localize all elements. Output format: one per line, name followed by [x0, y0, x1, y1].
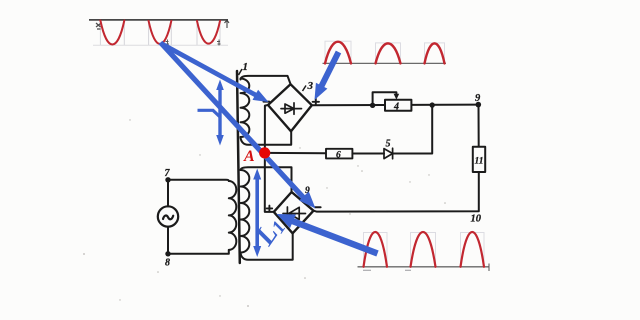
diode inside V2 (points left): [283, 207, 306, 220]
svg-text:9: 9: [475, 93, 481, 104]
wire: W2a bottom to bridge V1 bottom vertex: [241, 131, 292, 144]
wire: node A rail to resistor R6: [265, 152, 326, 154]
junction dot at rheostat left: [370, 103, 375, 108]
plus sign at V2 output: [267, 206, 273, 212]
wire: VD5 up to top rail junction: [393, 105, 433, 153]
G1 red curve: three negative half-sine valleys: [100, 21, 220, 45]
G3 tick marks: [363, 269, 411, 271]
blue tick on arrow B5: [198, 110, 220, 116]
blue arrow B2: waveform G1 through node A to V2 minus terminal: [161, 43, 316, 209]
G3 red curve: three positive half-sine humps: [364, 232, 485, 267]
svg-text:10: 10: [471, 214, 482, 225]
svg-text:11: 11: [475, 157, 484, 167]
blue arrow B3: waveform G2 to V1 plus terminal: [315, 52, 339, 100]
rheostat R4 wiper arrowhead: [394, 94, 400, 100]
paper speckles: [83, 119, 446, 307]
wire: R11 down to node 10 corner and left to V2 minus vertex: [314, 172, 479, 212]
plus sign at V1 output: [313, 99, 319, 105]
minus sign at V2 output: [315, 206, 321, 208]
G2 baseline: [323, 62, 447, 64]
G2 grid boxes: [325, 41, 445, 63]
diode inside V1: [281, 103, 302, 114]
minus sign at V1 output: [264, 101, 270, 103]
bridge rectifier V1 diamond: [268, 84, 312, 131]
svg-text:6: 6: [336, 150, 341, 160]
G3 baseline: [358, 266, 490, 268]
svg-text:5: 5: [386, 139, 391, 150]
wire: node 9 down to resistor R11: [478, 105, 480, 147]
node A red dot: [259, 147, 270, 158]
wire: R6 to diode VD5: [352, 153, 384, 155]
bridge rectifier V2 diamond: [274, 192, 314, 233]
wire: W2a top to bridge V1 top vertex: [241, 76, 291, 84]
wire: V1 minus vertex down through node A to V2 plus vertex: [265, 105, 274, 212]
wire: W2b top to bridge V2 top vertex: [241, 167, 292, 192]
G2 red curve: three positive half-sine humps: [325, 42, 445, 64]
svg-text:8: 8: [165, 258, 170, 269]
transformer secondary winding W2a (top): [241, 79, 250, 138]
svg-text:A: A: [243, 148, 255, 165]
component number labels: [165, 61, 484, 269]
G1 time axis: [89, 19, 228, 21]
G3 grid boxes: [364, 233, 485, 267]
wire: W2b bottom to bridge V2 bottom vertex: [241, 233, 293, 259]
wire: node 7 to W1 top: [168, 180, 229, 181]
AC source tilde symbol: [163, 216, 173, 220]
graph G2: rectified waveform (top-middle, positive half-waves): [323, 41, 447, 63]
resistor R11 body: [473, 147, 485, 172]
transformer primary winding W1: [229, 181, 237, 250]
graph G3: rectified waveform (bottom-right, positive half-waves): [358, 232, 490, 271]
node 8 dot: [165, 251, 170, 256]
transformer secondary winding W2b (bottom): [241, 170, 250, 253]
svg-text:4: 4: [393, 102, 399, 113]
svg-text:1: 1: [243, 61, 249, 73]
wire: V1 plus vertex to node 9 (top rail): [312, 104, 479, 107]
blue double arrow B5 (at transformer top): [216, 80, 224, 146]
rheostat R4 body: [385, 100, 411, 111]
node 9 dot: [476, 102, 482, 108]
G1 grid lines: [93, 20, 228, 46]
wire: W1 bottom to node 8: [168, 250, 229, 254]
G1 axis end marks: [96, 23, 101, 29]
transformer T1 core: [237, 71, 240, 263]
blue arrow B1: waveform G1 to V1 minus terminal: [162, 44, 269, 102]
node 7 dot: [165, 177, 170, 182]
blue double arrow B6 (secondary winding span L1): [253, 169, 261, 258]
wire: node 7 down to source G: [167, 180, 169, 207]
blue arrow B4: waveform G3 to V2 diode: [277, 214, 378, 254]
wire: source G to node 8: [167, 227, 169, 254]
AC source G circle: [158, 206, 178, 226]
svg-text:3: 3: [307, 80, 314, 92]
graph G1: input AC waveform (top-left, negative half-waves): [89, 20, 229, 46]
diode VD5: [384, 148, 393, 159]
junction dot at diode branch: [430, 102, 435, 107]
rheostat R4 wiper loop: [373, 92, 397, 105]
resistor R6 body: [326, 149, 352, 159]
